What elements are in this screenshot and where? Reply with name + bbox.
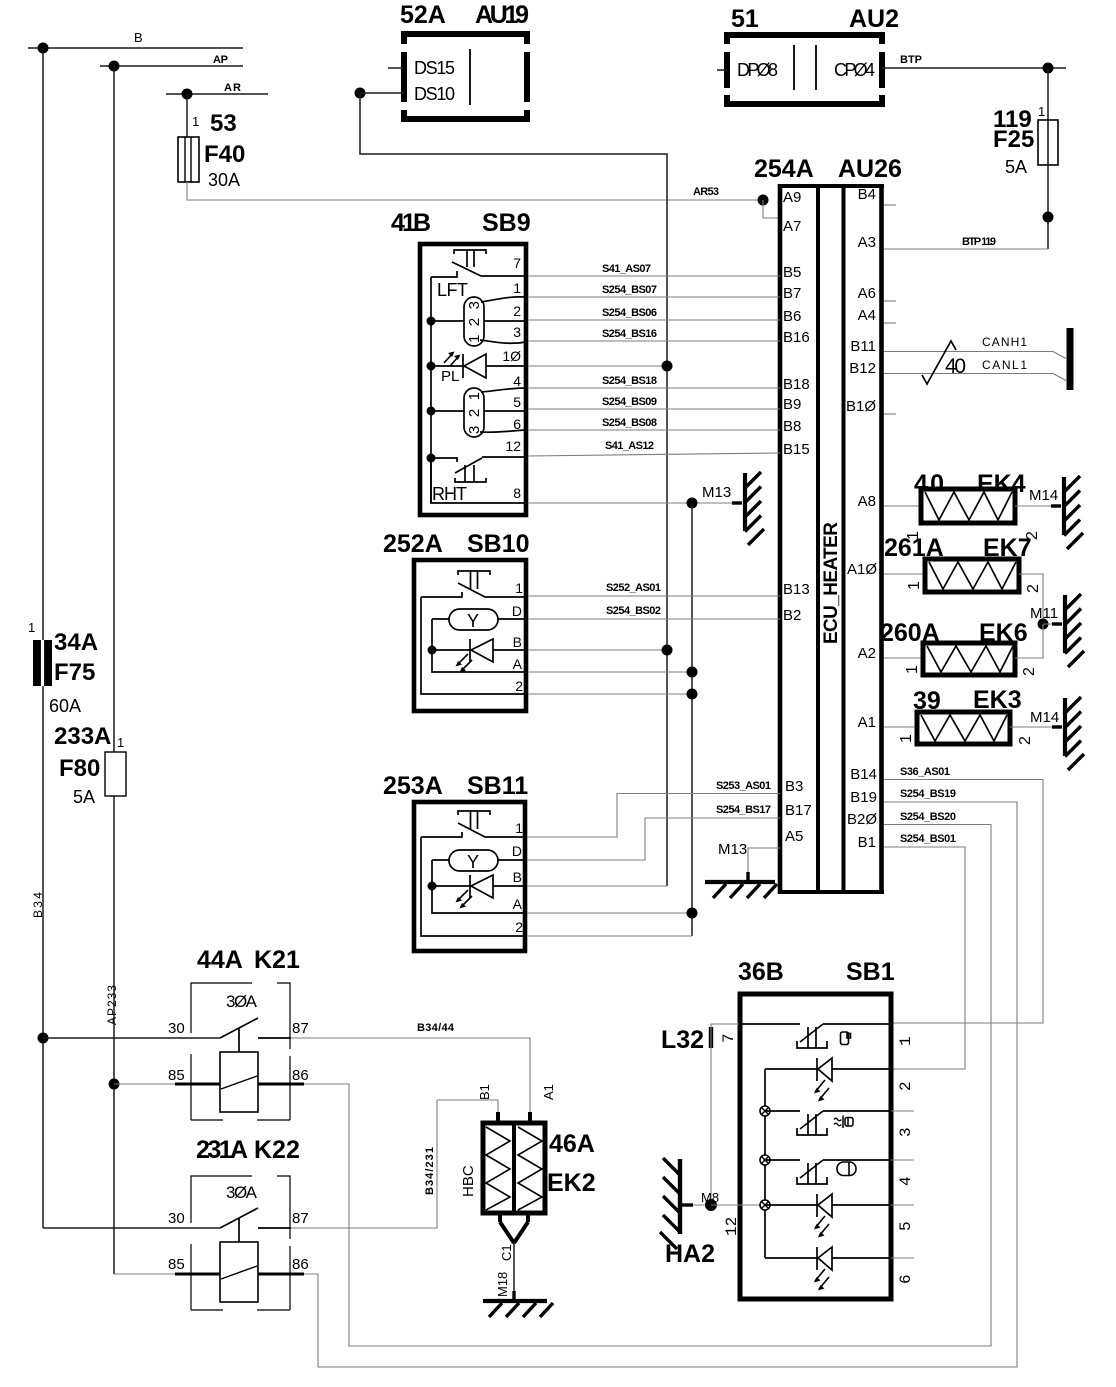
K22 contact blade <box>220 1208 291 1242</box>
svg-text:231A: 231A <box>196 1136 248 1164</box>
wire BTP119 to A3 <box>884 236 1048 249</box>
fuse F75 60A <box>28 620 98 716</box>
svg-text:PL: PL <box>441 368 459 385</box>
node B <box>38 43 49 54</box>
node F25 lower <box>1043 212 1054 223</box>
svg-text:S254_BS07: S254_BS07 <box>602 284 657 296</box>
heater HBC EK2 (46A) <box>460 1084 596 1297</box>
SB9 switch LFT <box>431 250 528 277</box>
svg-text:BTP 119: BTP 119 <box>962 236 996 248</box>
svg-text:1: 1 <box>28 620 35 635</box>
wire S41_AS12 pin12 to B15 <box>528 440 780 456</box>
seat vent switch SB11 (253A) <box>383 772 528 951</box>
svg-text:B5: B5 <box>783 264 801 281</box>
switch panel SB1 (36B) <box>738 958 895 1299</box>
svg-text:B1Ø: B1Ø <box>846 398 876 415</box>
svg-text:B2: B2 <box>783 607 801 624</box>
svg-text:EK2: EK2 <box>547 1169 596 1197</box>
icon lamp row4 <box>837 1162 856 1176</box>
svg-text:S254_BS02: S254_BS02 <box>606 605 661 617</box>
wire CANL1 <box>884 358 1066 381</box>
connector AU2 (51) <box>724 5 899 107</box>
svg-text:A: A <box>513 896 523 912</box>
SB9 switch RHT <box>431 457 528 482</box>
node bus/123 <box>427 317 436 326</box>
node M8 <box>705 1199 717 1211</box>
svg-text:S36_AS01: S36_AS01 <box>900 766 950 778</box>
svg-text:51: 51 <box>731 5 759 33</box>
svg-text:S252_AS01: S252_AS01 <box>606 582 661 594</box>
svg-text:4: 4 <box>897 1176 915 1186</box>
node bus/PL <box>427 362 436 371</box>
svg-text:1: 1 <box>898 734 915 743</box>
pin 5 stub <box>891 1205 915 1231</box>
svg-text:D: D <box>512 843 522 859</box>
svg-text:B11: B11 <box>850 338 876 355</box>
svg-text:1: 1 <box>906 581 923 590</box>
wire S254_BS19 B19 to K22-86 <box>304 788 1017 1367</box>
pin 6 stub <box>891 1258 915 1284</box>
svg-text:1Ø: 1Ø <box>502 348 521 364</box>
wire pin10 to DS10 bus <box>528 365 667 367</box>
wire AR53 from fuse to AU26 <box>187 182 763 200</box>
svg-text:254A: 254A <box>754 155 814 183</box>
K22 coil <box>220 1242 258 1302</box>
wire F25 down <box>1047 165 1049 249</box>
wire S252_AS01 pin1 to B13 <box>528 582 780 596</box>
wire pin8 to ground M13 <box>528 502 742 504</box>
wire AP233 to K22-85 <box>114 1273 220 1275</box>
wire B34 to K21-30 <box>43 1037 220 1039</box>
svg-text:46A: 46A <box>549 1130 595 1158</box>
svg-text:B2Ø: B2Ø <box>847 811 877 828</box>
svg-text:5: 5 <box>513 394 521 410</box>
wire pin2 to ground bus <box>528 693 692 695</box>
wire stub DP08 <box>717 69 727 71</box>
svg-text:DS15: DS15 <box>414 58 455 78</box>
svg-text:B7: B7 <box>783 285 801 302</box>
svg-text:A4: A4 <box>858 307 876 324</box>
svg-text:36B: 36B <box>738 958 784 986</box>
wire S36_AS01 B14 to SB1 pin1 <box>884 766 1043 1023</box>
svg-text:S254_BS01: S254_BS01 <box>900 833 956 845</box>
svg-text:85: 85 <box>168 1256 185 1273</box>
svg-text:3: 3 <box>897 1127 915 1137</box>
svg-text:K22: K22 <box>254 1136 300 1164</box>
svg-text:1: 1 <box>515 580 523 596</box>
SB1 row6 LED <box>765 1247 891 1291</box>
svg-text:B18: B18 <box>783 376 810 393</box>
svg-text:DPØ8: DPØ8 <box>737 60 778 80</box>
SB1 row4 wire <box>765 1159 800 1161</box>
icon blower row3 <box>834 1116 853 1129</box>
svg-text:60A: 60A <box>49 696 81 716</box>
svg-text:44A: 44A <box>197 946 243 974</box>
ground HA2 (M8) <box>660 1158 719 1268</box>
svg-text:L32: L32 <box>661 1026 704 1054</box>
node SB10-A/ground <box>687 667 698 678</box>
svg-text:6: 6 <box>897 1274 915 1284</box>
svg-text:A9: A9 <box>783 189 801 206</box>
svg-text:40: 40 <box>945 355 966 378</box>
svg-text:A5: A5 <box>785 828 803 845</box>
svg-text:B34/231: B34/231 <box>424 1147 436 1195</box>
wire S254_BS09 pin5 to B9 <box>528 396 780 409</box>
pin B4 <box>858 186 896 205</box>
svg-text:12: 12 <box>723 1217 741 1236</box>
svg-text:321: 321 <box>466 392 483 434</box>
svg-text:B13: B13 <box>783 581 810 598</box>
wire AR to fuse F40 <box>186 94 188 137</box>
svg-text:M13: M13 <box>718 841 747 858</box>
ground M14 (EK4) <box>1029 476 1083 549</box>
junction row3 <box>760 1106 770 1116</box>
node AR <box>182 89 193 100</box>
svg-text:LFT: LFT <box>437 280 468 300</box>
svg-text:F40: F40 <box>204 141 245 168</box>
wire AP horizontal <box>100 54 243 66</box>
svg-text:Y: Y <box>467 611 479 631</box>
svg-text:7: 7 <box>513 255 521 271</box>
svg-text:M18: M18 <box>495 1272 510 1297</box>
svg-text:B6: B6 <box>783 308 801 325</box>
svg-text:B14: B14 <box>850 766 877 783</box>
svg-text:A1: A1 <box>858 714 876 731</box>
svg-text:86: 86 <box>292 1067 309 1084</box>
svg-text:A6: A6 <box>858 285 876 302</box>
wire CANH1 <box>884 335 1066 359</box>
svg-text:S254_BS16: S254_BS16 <box>602 328 657 340</box>
svg-text:CANH1: CANH1 <box>982 335 1027 349</box>
svg-text:B: B <box>513 869 522 885</box>
svg-text:12: 12 <box>505 438 521 454</box>
K21 contact blade <box>220 1018 291 1052</box>
svg-text:K21: K21 <box>254 946 300 974</box>
svg-text:3ØA: 3ØA <box>226 992 258 1011</box>
ground M13 (SB9) <box>702 472 764 545</box>
SB10 internal bus 1 <box>421 597 528 694</box>
svg-text:D: D <box>512 603 522 619</box>
SB1 internal bus <box>764 1069 766 1258</box>
wire B34/44 K21-87 to EK2 A1 <box>291 1022 530 1113</box>
svg-text:S254_BS18: S254_BS18 <box>602 375 657 387</box>
connector L32 <box>661 1026 738 1054</box>
wire B horizontal <box>28 30 243 48</box>
svg-text:S253_AS01: S253_AS01 <box>716 780 771 792</box>
motor Y <box>432 850 527 872</box>
node SB11-A/ground <box>687 908 698 919</box>
LED SB11 <box>432 875 527 909</box>
svg-text:S254_BS20: S254_BS20 <box>900 811 956 823</box>
fuse F80 5A <box>54 723 126 807</box>
wire AP233 vertical feed <box>105 66 119 1274</box>
wire pin2 to ground bus <box>527 935 692 937</box>
node bus/321 <box>427 407 436 416</box>
svg-text:A1: A1 <box>541 1084 556 1100</box>
ground M14 (EK3) <box>1030 697 1084 770</box>
SB1 switch row1 <box>797 1024 891 1048</box>
svg-text:2: 2 <box>515 678 523 694</box>
svg-text:3ØA: 3ØA <box>226 1183 258 1202</box>
node bus/RHT <box>427 454 436 463</box>
SB1 switch row3 <box>797 1111 891 1135</box>
svg-text:B16: B16 <box>783 329 810 346</box>
SB10 internal bus 2 <box>432 619 528 672</box>
svg-text:S254_BS06: S254_BS06 <box>602 307 657 319</box>
SB10 switch <box>421 571 528 597</box>
svg-text:2: 2 <box>513 303 521 319</box>
wire pinA to ground bus <box>528 671 692 673</box>
svg-text:SB9: SB9 <box>482 209 531 237</box>
SB11 internal bus 2 <box>432 860 527 913</box>
K21 coil <box>220 1052 258 1112</box>
svg-text:87: 87 <box>292 1020 309 1037</box>
pin A4 <box>858 307 896 324</box>
svg-text:1: 1 <box>904 665 921 674</box>
svg-text:B15: B15 <box>783 441 810 458</box>
svg-text:DS10: DS10 <box>414 84 455 104</box>
svg-text:7: 7 <box>720 1033 738 1043</box>
svg-text:S254_BS09: S254_BS09 <box>602 396 657 408</box>
node bus2/LED <box>428 882 437 891</box>
node AP/K21-85 junction <box>109 1079 120 1090</box>
svg-text:SB10: SB10 <box>467 530 530 558</box>
svg-text:B4: B4 <box>858 186 876 203</box>
wire S254_BS06 pin2 to B6 <box>528 307 780 320</box>
wire AP233 to K21-85 <box>114 1083 220 1085</box>
SB1 row1 wire pin1 <box>740 1023 800 1025</box>
svg-text:C1: C1 <box>499 1244 514 1261</box>
svg-text:253A: 253A <box>383 772 443 800</box>
wire S254_BS16 pin3 to B16 <box>528 328 780 341</box>
pin A6 <box>858 285 896 302</box>
ECU heater AU26 (254A) <box>754 155 902 894</box>
svg-text:B: B <box>513 634 522 650</box>
svg-text:30: 30 <box>168 1020 185 1037</box>
wire AR horizontal <box>166 82 268 94</box>
svg-text:M13: M13 <box>702 484 731 501</box>
svg-text:Y: Y <box>467 852 479 872</box>
svg-text:CPØ4: CPØ4 <box>834 60 875 80</box>
svg-text:S41_AS07: S41_AS07 <box>602 263 651 275</box>
wire branch to A7 <box>763 200 779 218</box>
svg-text:B17: B17 <box>785 802 812 819</box>
pin 12 wire into SB1 <box>711 1205 765 1236</box>
svg-text:B1: B1 <box>858 834 876 851</box>
svg-text:S254_BS17: S254_BS17 <box>716 804 771 816</box>
wire pinB to DS10 bus <box>528 649 667 651</box>
svg-text:M11: M11 <box>1030 605 1058 622</box>
svg-text:3: 3 <box>513 324 521 340</box>
wire S254_BS18 pin4 to B18 <box>528 375 780 388</box>
svg-text:S41_AS12: S41_AS12 <box>605 440 654 452</box>
node bus2/LED <box>428 646 437 655</box>
SB1 row5 LED <box>765 1194 891 1238</box>
svg-text:1: 1 <box>117 735 124 750</box>
svg-text:AR53: AR53 <box>693 186 719 198</box>
heater element EK4 (40) <box>884 470 1055 540</box>
svg-text:30: 30 <box>168 1210 185 1227</box>
svg-text:A7: A7 <box>783 218 801 235</box>
SB1 row3 wire <box>765 1110 800 1112</box>
svg-text:123: 123 <box>466 301 483 343</box>
wire pinB to DS10 bus <box>527 885 667 887</box>
svg-text:BTP: BTP <box>900 54 922 66</box>
svg-text:5: 5 <box>897 1221 915 1231</box>
wire B34 vertical feed <box>31 48 45 1228</box>
svg-text:2: 2 <box>1017 736 1034 745</box>
svg-text:AR: AR <box>224 82 241 94</box>
wire S253_AS01 pin1 to B3 <box>527 780 780 837</box>
node AR53/A9 <box>758 195 769 206</box>
svg-text:30A: 30A <box>208 170 240 190</box>
heater element EK3 (39) <box>884 686 1056 745</box>
junction row4 <box>760 1155 770 1165</box>
ground M13 (A5) <box>705 841 780 898</box>
wire S254_BS20 B20 to K21-86 <box>304 811 991 1346</box>
wire stub DS15 <box>388 67 404 69</box>
svg-text:B: B <box>134 30 143 45</box>
svg-text:SB11: SB11 <box>467 772 528 800</box>
pin 3 stub <box>891 1111 915 1137</box>
wire bus corner to pin8 <box>431 458 528 503</box>
svg-text:AP: AP <box>213 54 228 66</box>
svg-text:41B: 41B <box>391 209 431 237</box>
svg-text:86: 86 <box>292 1256 309 1273</box>
svg-text:SB1: SB1 <box>846 958 895 986</box>
svg-text:B19: B19 <box>850 789 877 806</box>
svg-text:M14: M14 <box>1030 709 1059 726</box>
wire S254_BS01 B1 to SB1 pin2 <box>884 833 965 1069</box>
svg-text:2: 2 <box>1021 667 1038 676</box>
svg-text:B8: B8 <box>783 418 801 435</box>
svg-text:5A: 5A <box>73 787 95 807</box>
heater element EK6 (260A) <box>880 619 1043 676</box>
fuse F40 30A <box>178 110 245 190</box>
svg-text:CANL1: CANL1 <box>982 358 1027 372</box>
svg-text:ECU_HEATER: ECU_HEATER <box>821 522 842 644</box>
svg-text:252A: 252A <box>383 530 443 558</box>
wire B34 to K22-30 <box>43 1227 220 1229</box>
svg-text:4: 4 <box>513 373 521 389</box>
node SB10-2/ground <box>687 689 698 700</box>
selector 123 <box>431 297 528 346</box>
node M11 <box>1038 619 1049 630</box>
svg-text:AU2: AU2 <box>849 5 899 33</box>
svg-text:53: 53 <box>210 110 237 137</box>
svg-text:A: A <box>513 656 523 672</box>
svg-text:A1Ø: A1Ø <box>847 561 877 578</box>
svg-text:1: 1 <box>192 114 199 129</box>
svg-text:2: 2 <box>1025 584 1042 593</box>
wire S254_BS02 pinD to B2 <box>528 605 780 619</box>
node B/K21 junction <box>38 1033 49 1044</box>
svg-text:8: 8 <box>513 485 521 501</box>
ground bus to SB10/SB11 <box>691 503 693 936</box>
SB9 internal bus <box>430 277 432 503</box>
SB1 row2 LED <box>765 1058 891 1102</box>
svg-text:AU26: AU26 <box>838 155 902 183</box>
svg-text:B34/44: B34/44 <box>417 1022 455 1034</box>
connector AU19 (52A) <box>400 1 530 122</box>
pin B10 <box>846 398 896 415</box>
node SB10-B/DS10 <box>662 645 673 656</box>
junction row5 <box>760 1200 770 1210</box>
ground M18 <box>483 1291 553 1317</box>
SB11 switch <box>421 811 527 837</box>
fuse F25 5A <box>993 104 1058 177</box>
svg-text:A8: A8 <box>858 493 876 510</box>
svg-text:B34: B34 <box>31 892 45 918</box>
wire S254_BS08 pin6 to B8 <box>528 417 780 430</box>
svg-text:34A: 34A <box>54 629 98 656</box>
svg-text:233A: 233A <box>54 723 111 750</box>
svg-text:A2: A2 <box>858 645 876 662</box>
ground M11 <box>1030 594 1084 667</box>
node BTP/F25 <box>1043 63 1054 74</box>
seat vent switch SB10 (252A) <box>383 530 530 711</box>
svg-text:F80: F80 <box>59 755 100 782</box>
pin 4 stub <box>891 1160 915 1186</box>
SB1 switch row4 <box>797 1160 891 1184</box>
node AP <box>109 61 120 72</box>
heater element EK7 (261A) <box>884 534 1043 624</box>
node pin10/DS10 <box>662 361 673 372</box>
svg-text:1: 1 <box>897 1036 915 1046</box>
selector 321 <box>431 388 528 437</box>
wire S254_BS07 pin1 to B7 <box>528 284 780 297</box>
svg-text:1: 1 <box>1038 104 1045 119</box>
CAN termination bar <box>1067 328 1074 390</box>
SB11 internal bus 1 <box>421 837 527 936</box>
node M13 junction <box>687 498 698 509</box>
wire B34/231 K22-87 to EK2 B1 <box>291 1100 498 1228</box>
svg-text:RHT: RHT <box>432 484 467 504</box>
svg-text:1: 1 <box>513 280 521 296</box>
svg-text:F25: F25 <box>993 126 1034 153</box>
wire BTP to fuse F25 <box>1047 68 1049 120</box>
svg-text:B9: B9 <box>783 396 801 413</box>
wire K22-86 <box>258 1273 304 1276</box>
wire S41_AS07 pin7 to B5 <box>528 263 780 276</box>
svg-text:A3: A3 <box>858 234 876 251</box>
wire DS10 illumination bus <box>360 93 667 886</box>
heated seat switch SB9 (41B) <box>391 209 531 515</box>
svg-text:AU19: AU19 <box>475 1 529 29</box>
relay K22 (231A) <box>168 1136 309 1310</box>
harness crossing mark 40 <box>922 341 966 384</box>
svg-text:52A: 52A <box>400 1 446 29</box>
LED PL backlight <box>431 352 528 386</box>
svg-text:AP233: AP233 <box>105 985 119 1025</box>
svg-text:2: 2 <box>515 919 523 935</box>
wire K21-86 <box>258 1083 304 1086</box>
svg-text:87: 87 <box>292 1210 309 1227</box>
svg-text:2: 2 <box>897 1081 915 1091</box>
relay K21 (44A) <box>168 946 309 1120</box>
wire L32 pin7 down to M8 <box>711 1024 739 1205</box>
node DS10 <box>355 88 366 99</box>
svg-text:85: 85 <box>168 1067 185 1084</box>
wire pinA to ground bus <box>527 912 692 914</box>
svg-text:5A: 5A <box>1005 157 1027 177</box>
svg-text:B1: B1 <box>477 1084 492 1100</box>
svg-text:B12: B12 <box>849 360 876 377</box>
LED SB10 <box>432 639 528 673</box>
svg-text:HBC: HBC <box>460 1165 477 1197</box>
motor Y <box>432 609 528 631</box>
svg-text:S254_BS19: S254_BS19 <box>900 788 956 800</box>
